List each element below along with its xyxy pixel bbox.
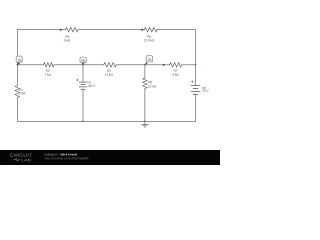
resistor R8 value label [148, 81, 156, 87]
resistor R1 body [15, 86, 19, 98]
resistor R7 value label [172, 70, 178, 76]
battery V5 plates [191, 85, 200, 94]
resistor R8 body [143, 78, 147, 89]
junction dot mid Vc [144, 64, 146, 66]
battery V5 plus sign [191, 81, 193, 83]
node Vb label [80, 57, 86, 65]
footer bar [0, 150, 220, 165]
current arrow top right [140, 29, 143, 31]
wire R8 branch lower [144, 89, 146, 122]
wire mid segment Va to R2 [17, 64, 43, 66]
resistor R6 body [144, 28, 157, 32]
wire mid segment R2 to R3 [54, 64, 104, 66]
wire V3 branch lower [82, 89, 84, 121]
resistor R7 body [170, 63, 182, 67]
wire mid segment R3 to R7 [116, 64, 169, 66]
current arrow top left [60, 29, 63, 31]
battery V3 plus sign [76, 79, 78, 81]
resistor R4 value label [64, 35, 70, 41]
junction dot bottom ground [144, 121, 146, 123]
footer CircuitLab logo [10, 154, 32, 162]
wire left rail upper [16, 30, 18, 86]
wire R8 branch upper [144, 65, 146, 78]
wire top middle segment [78, 29, 144, 31]
resistor R2 body [44, 63, 54, 67]
wire right rail upper [195, 30, 197, 85]
resistor R2 value label [45, 70, 51, 76]
junction dot mid V3 [82, 64, 84, 66]
footer url text [45, 157, 89, 160]
resistor R4 body [66, 28, 78, 32]
junction dot mid Va [17, 64, 19, 66]
node Va label [16, 56, 22, 65]
wire V3 branch upper [82, 65, 84, 82]
resistor R1 value label [19, 89, 25, 95]
wire top right segment [157, 29, 195, 31]
wire left rail lower [16, 98, 18, 122]
resistor R3 body [104, 63, 117, 67]
battery V3 value label [87, 81, 95, 87]
resistor R6 value label [144, 35, 154, 41]
wire right rail lower [195, 95, 197, 122]
resistor R3 value label [105, 70, 113, 76]
junction dot mid right rail [195, 64, 197, 66]
battery V5 value label [202, 87, 208, 92]
junction dot bottom V3 [82, 121, 84, 123]
battery V3 plates [79, 82, 86, 89]
node Vc label [145, 56, 153, 65]
footer title text [45, 153, 78, 156]
wire top left segment [17, 29, 65, 31]
wire bottom [17, 120, 195, 122]
ground [141, 121, 148, 127]
wire mid segment R7 to right rail [182, 64, 196, 66]
current arrow mid right [163, 64, 166, 66]
